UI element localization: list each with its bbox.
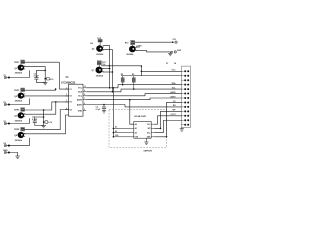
wire Q4 collector <box>24 115 68 134</box>
ground top right <box>168 52 172 54</box>
wire U1 GND pin to cap <box>86 104 125 106</box>
svg-text:Q7: Q7 <box>92 70 95 72</box>
wire terminal V2 to Q2 emitter <box>7 98 30 104</box>
node RC1 <box>44 70 46 72</box>
wire SDA <box>86 85 181 88</box>
wire J1 ground <box>181 128 183 129</box>
resistor R4 TMP4 <box>21 127 25 131</box>
wire Q5 base bus <box>103 50 112 92</box>
wire Q3 collector <box>24 102 56 114</box>
svg-text:10: 10 <box>84 86 86 88</box>
terminal 12V <box>172 41 174 43</box>
J1 pin pair row 8 <box>184 101 186 103</box>
transistor Q1 2N3904 <box>18 65 25 71</box>
ground symbol bottom left <box>15 155 20 157</box>
wire VCC to 12V turret <box>132 41 134 43</box>
wire GND turret <box>7 153 18 157</box>
wire Q7 base <box>103 71 113 73</box>
J1 pin pair row 11 <box>184 115 186 117</box>
svg-text:2N3904: 2N3904 <box>15 100 23 103</box>
transistor Q5 2N3904 <box>99 42 101 45</box>
wire terminal V1 to Q1 emitter <box>7 70 30 77</box>
U1 pin 7 ADR0 <box>83 99 86 101</box>
svg-text:ADR1: ADR1 <box>170 95 175 98</box>
svg-text:VCC: VCC <box>78 88 83 90</box>
resistor R2 TMP2 <box>21 88 25 92</box>
U1 pin 2 V2 <box>65 95 68 97</box>
J1 pin pair row 2 <box>184 75 186 77</box>
wire Q2 collector to U1 pin 2 <box>24 95 68 97</box>
svg-text:R9: R9 <box>132 74 134 76</box>
U1 pin 5 GND <box>83 110 86 112</box>
svg-text:A0: A0 <box>135 123 137 126</box>
svg-text:A1: A1 <box>115 126 117 129</box>
wire pullup rail to J1 pin 2 <box>121 75 182 77</box>
terminal GND top right <box>171 51 173 53</box>
resistor R17 <box>97 61 101 65</box>
wire ADR0 to J1 <box>86 94 181 96</box>
J1 pin pair row 9 <box>184 106 186 108</box>
transistor Q4 2N3904 <box>18 132 25 138</box>
ground RC1 <box>43 81 48 83</box>
svg-text:2N3904: 2N3904 <box>96 75 104 78</box>
U2 pin 4 VSS <box>131 136 134 138</box>
U2 pin 7 WP <box>151 127 154 129</box>
svg-text:2N3904: 2N3904 <box>15 139 23 142</box>
wire Q1 base to bus <box>24 61 60 63</box>
resistor R1 TMP1 <box>21 60 25 64</box>
svg-text:SDA: SDA <box>172 82 177 85</box>
svg-text:Q5: Q5 <box>92 49 95 51</box>
svg-text:A2: A2 <box>135 131 137 134</box>
svg-text:2N3904: 2N3904 <box>96 53 104 56</box>
J1 pin pair row 3 <box>184 79 186 81</box>
wire Q7 collector <box>103 68 110 70</box>
svg-text:2N3904: 2N3904 <box>15 72 23 75</box>
U1 pin 9 SDA <box>83 91 86 93</box>
svg-text:R16: R16 <box>125 43 128 45</box>
U1 pin 4 V4 <box>65 109 68 111</box>
U2 pin 5 SDA <box>151 136 154 138</box>
ground RC2 <box>41 125 46 127</box>
svg-text:A1: A1 <box>135 127 137 130</box>
wire SDA drop to U2 <box>112 88 114 137</box>
wire Q1 collector to RC node <box>24 65 45 67</box>
svg-text:GND: GND <box>177 50 182 52</box>
svg-text:ADR0: ADR0 <box>77 99 82 102</box>
wire Q3 base <box>24 102 68 110</box>
svg-text:2N3904: 2N3904 <box>126 53 134 56</box>
U1 pin 6 ADR1 <box>83 104 86 106</box>
ground J1 <box>180 128 184 130</box>
wire to ground top right <box>169 52 171 54</box>
wire Q4 base to U1 pin 4 <box>24 110 68 130</box>
J1 pin pair row 6 <box>184 93 186 95</box>
node RC2 <box>43 109 45 111</box>
capacitor C3 0.1uF <box>103 105 105 108</box>
svg-text:ADR0: ADR0 <box>170 91 175 94</box>
U1 pin 3 V3 <box>65 101 68 103</box>
transistor Q3 2N3904 <box>18 112 25 118</box>
wire Q6 emitter to GND turret <box>136 51 172 52</box>
wire U2 WP to J1 <box>154 111 181 128</box>
wire bus V1 to U1 pin 1 <box>59 62 68 89</box>
transistor Q6 2N3904 <box>132 45 134 46</box>
svg-text:2N3904: 2N3904 <box>15 119 23 122</box>
ground U2 <box>145 138 147 142</box>
wire ADR1 to J1 <box>86 98 181 100</box>
transistor Q7 2N3904 <box>98 65 100 67</box>
svg-text:R8: R8 <box>121 74 123 76</box>
resistor R3 TMP3 <box>21 108 25 112</box>
svg-text:10k: 10k <box>90 43 93 45</box>
wire U2 left pin nets <box>113 127 130 129</box>
ground C3 <box>102 110 106 112</box>
transistor Q2 2N3904 <box>18 93 25 99</box>
svg-text:TMP4: TMP4 <box>14 128 20 131</box>
svg-text:VCC2: VCC2 <box>170 114 175 116</box>
U1 pin 10 VCC <box>83 87 86 89</box>
J1 pin pair row 5 <box>184 88 186 90</box>
U2 pin 6 SCL <box>151 132 154 134</box>
wire ADR0 drop to U2 pin A0 <box>130 100 134 125</box>
wire VCC to J1 pin 1 <box>141 70 181 72</box>
svg-text:V2: V2 <box>69 96 71 98</box>
U2 pin 8 VCC <box>151 123 154 125</box>
U1 pin 1 V1 <box>65 88 68 90</box>
svg-text:V3: V3 <box>69 102 71 104</box>
svg-text:VCC: VCC <box>172 70 177 72</box>
capacitor C1 0.1uF <box>44 66 46 82</box>
wire VCC rail drop <box>140 66 142 76</box>
svg-text:TMP1: TMP1 <box>14 62 20 64</box>
wire SCL <box>86 89 181 92</box>
resistor R6 TRIM <box>44 121 45 123</box>
svg-text:V1: V1 <box>69 89 71 91</box>
U2 pin 3 A2 <box>131 132 134 134</box>
U2 pin 1 A0 <box>131 123 134 125</box>
U1 pin 8 SCL <box>83 95 86 97</box>
wire U2 VCC to J1 <box>154 116 181 124</box>
svg-text:0.1µF: 0.1µF <box>32 119 38 121</box>
U2 pin 2 A1 <box>131 127 134 129</box>
dashed box EEPROM option <box>109 110 167 148</box>
capacitor C2 0.1uF <box>43 110 45 126</box>
svg-text:TMP2: TMP2 <box>14 90 20 92</box>
svg-text:U2 24LC025: U2 24LC025 <box>134 115 146 118</box>
wire U2 SCL to J1 <box>154 120 181 132</box>
wire terminal V3 to Q3 emitter <box>7 118 30 123</box>
svg-text:0.1µF: 0.1µF <box>34 76 40 78</box>
resistor R5 TRIM <box>45 78 46 80</box>
wire Q5 collector bus <box>103 46 110 88</box>
J1 pin pair row 12 <box>184 119 186 121</box>
J1 pin pair row 7 <box>184 97 186 99</box>
wire Q2 base <box>24 89 55 90</box>
svg-text:ADR1: ADR1 <box>77 103 82 106</box>
J1 pin pair row 4 <box>184 84 186 86</box>
J1 pin pair row 13 <box>184 124 186 126</box>
wire U2 SDA to J1 <box>154 102 181 136</box>
svg-text:EEPROM: EEPROM <box>144 151 153 153</box>
J1 pin pair row 10 <box>184 110 186 112</box>
wire Q6 base stub <box>136 46 140 48</box>
svg-text:A2: A2 <box>115 130 117 133</box>
svg-text:TMP3: TMP3 <box>14 110 20 112</box>
svg-text:GND: GND <box>78 110 83 112</box>
J1 pin pair row 1 <box>184 70 186 72</box>
wire VCC rail <box>101 65 141 67</box>
wire jog to J1 row10 <box>125 105 182 107</box>
svg-text:SDA: SDA <box>78 91 83 94</box>
wire terminal V4 to Q4 emitter <box>7 138 30 146</box>
svg-text:12VIN: 12VIN <box>136 45 142 47</box>
